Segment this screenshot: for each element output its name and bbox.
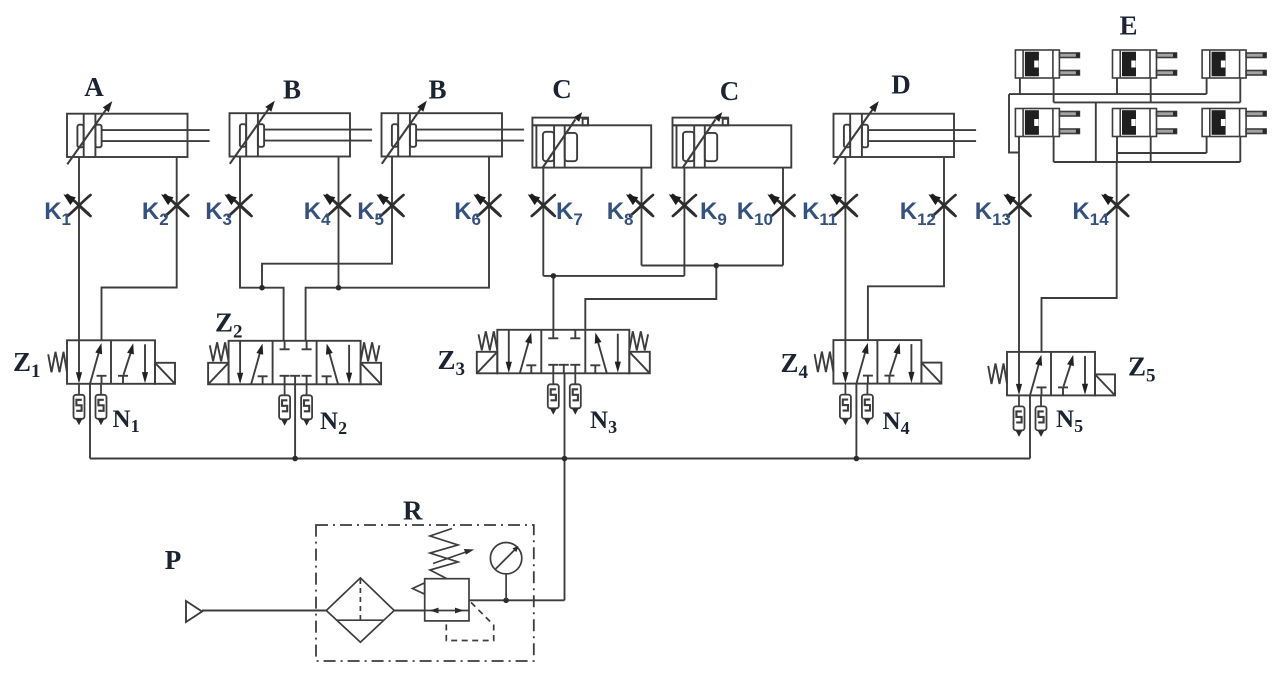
supply line Z1 to bus <box>89 384 91 459</box>
svg-text:Z2: Z2 <box>215 308 243 343</box>
muffler N1 right <box>96 384 107 426</box>
supply line Z3 to bus and down to R unit output <box>564 373 566 600</box>
muffler N4 right <box>862 384 873 426</box>
svg-text:R: R <box>403 496 423 526</box>
supply line P to filter <box>202 610 326 612</box>
muffler N3 right <box>570 373 581 415</box>
svg-text:K10: K10 <box>737 198 773 229</box>
throttle valve K6 <box>473 194 500 216</box>
muffler N4 left <box>840 384 851 426</box>
valve Z1 (5/2) <box>48 340 175 384</box>
junction dot gauge stem <box>503 598 509 604</box>
svg-text:K8: K8 <box>607 198 634 229</box>
throttle valve K3 <box>224 194 251 216</box>
wire E6 right port to rail4 <box>1239 137 1241 163</box>
junction dot K3/K5 node <box>259 285 265 291</box>
valve Z3 (5/3) <box>477 330 650 374</box>
svg-text:K12: K12 <box>900 198 936 229</box>
gripper cylinder E6 <box>1202 109 1266 137</box>
cylinder C (second) <box>673 112 792 168</box>
svg-text:N4: N4 <box>883 408 910 438</box>
svg-text:K3: K3 <box>205 198 232 229</box>
svg-text:C: C <box>720 76 740 106</box>
svg-text:K14: K14 <box>1072 198 1109 229</box>
wire rail2 to rail4 connector <box>1095 102 1097 162</box>
wire cylinder B2 left port through K5 to junction <box>262 157 392 288</box>
junction dot K8/K10 node <box>714 263 720 269</box>
pressure source triangle P <box>186 601 202 622</box>
wire cylinder C1 left port through K7 down <box>542 168 544 276</box>
supply bus <box>90 458 1030 460</box>
wire junction to Z3 port a <box>552 276 554 330</box>
throttle valve K13 <box>1003 194 1030 216</box>
wire C1-K8 to C2-K10 header <box>642 265 784 267</box>
muffler N5 left <box>1014 395 1025 437</box>
svg-text:K1: K1 <box>44 198 71 229</box>
svg-text:Z3: Z3 <box>438 345 466 380</box>
svg-text:D: D <box>891 70 911 100</box>
supply line Z2 to bus <box>294 384 296 458</box>
wire E6 left port to rail3 <box>1206 137 1208 154</box>
muffler N2 right <box>301 384 312 426</box>
wire E5 right port to rail4 <box>1150 137 1152 163</box>
svg-text:N2: N2 <box>320 408 347 438</box>
wire E4 right port to rail4 <box>1053 137 1055 163</box>
wire cylinder A left port through K1 to Z1 port a <box>78 157 80 340</box>
throttle valve K10 <box>767 194 794 216</box>
muffler N5 right <box>1036 395 1047 437</box>
regulator dashed pilot feedback <box>446 602 493 640</box>
junction dot K7/K9 node <box>551 273 557 279</box>
svg-text:N3: N3 <box>590 407 617 437</box>
wire E1 right port to rail2 <box>1053 78 1055 102</box>
svg-text:K2: K2 <box>142 198 169 229</box>
muffler N3 left <box>548 373 559 415</box>
regulator adjustment arrow <box>433 549 474 564</box>
rail2 (E right ports, top row) <box>1054 101 1241 103</box>
wire E node B through K14 to Z5 port b <box>1042 162 1117 352</box>
svg-text:N5: N5 <box>1056 406 1083 436</box>
svg-text:K7: K7 <box>556 198 583 229</box>
wire cylinder D right port through K12 to Z4 port b <box>868 157 944 340</box>
gripper cylinder E2 <box>1113 50 1177 78</box>
svg-text:K4: K4 <box>304 198 331 229</box>
muffler N1 left <box>74 384 85 426</box>
wire cylinder C1 right port through K8 down <box>641 168 643 266</box>
wire cylinder B1 right port through K4 to junction <box>338 157 340 288</box>
gripper cylinder E4 <box>1015 109 1079 137</box>
cylinder C (first) <box>532 112 651 168</box>
wire E3 left port to rail1 <box>1206 78 1208 94</box>
line filter to regulator <box>394 610 425 612</box>
wire cylinder B1 left port through K3 to Z2 port a <box>240 157 284 341</box>
regulator spring <box>430 529 458 579</box>
svg-text:Z1: Z1 <box>13 347 41 382</box>
cylinder B (second) <box>382 101 525 164</box>
valve Z4 (5/2) <box>815 340 942 384</box>
svg-text:K11: K11 <box>802 198 837 229</box>
muffler N2 left <box>279 384 290 426</box>
svg-text:K9: K9 <box>700 198 727 229</box>
svg-text:Z4: Z4 <box>781 348 809 383</box>
junction dot bus Z3 <box>562 456 568 462</box>
throttle valve K9 <box>669 194 696 216</box>
svg-text:K5: K5 <box>357 198 384 229</box>
regulator output line <box>469 599 565 601</box>
svg-text:B: B <box>283 75 301 105</box>
throttle valve K11 <box>830 194 857 216</box>
wire junction to Z3 port b <box>585 266 716 330</box>
gripper cylinder E3 <box>1202 50 1266 78</box>
svg-text:Z5: Z5 <box>1128 352 1156 387</box>
wire cylinder C2 right port through K10 down <box>782 168 784 266</box>
rail3 (E left ports, bottom row) <box>1117 152 1207 154</box>
gripper cylinder E5 <box>1113 109 1177 137</box>
gripper cylinder E1 <box>1015 50 1079 78</box>
wire rail1 down to node K13 <box>1009 94 1019 152</box>
wire C1-K7 to C2-K9 header <box>543 275 684 277</box>
svg-text:P: P <box>165 545 182 575</box>
throttle valve K8 <box>626 194 653 216</box>
filter (diamond) <box>326 578 394 642</box>
svg-text:C: C <box>552 74 572 104</box>
throttle valve K1 <box>63 194 90 216</box>
pressure gauge <box>490 543 521 601</box>
svg-text:B: B <box>428 75 446 105</box>
pressure regulator <box>413 579 470 621</box>
wire E2 left port to rail1 <box>1116 78 1118 94</box>
wire E3 right port to rail2 <box>1239 78 1241 102</box>
junction dot bus Z4 <box>854 456 860 462</box>
wire E5 left port to rail3 <box>1116 137 1118 163</box>
wire cylinder D left port through K11 to Z4 port a <box>844 157 846 340</box>
svg-text:A: A <box>84 72 104 102</box>
valve Z5 (5/2) <box>988 352 1115 396</box>
supply line Z4 to bus <box>855 384 857 459</box>
supply line bus up to Z5 <box>1029 395 1031 458</box>
svg-text:K6: K6 <box>454 198 481 229</box>
wire E2 right port to rail2 <box>1150 78 1152 102</box>
svg-text:N1: N1 <box>113 406 140 436</box>
wire cylinder B2 right port through K6 to Z2 port b <box>306 157 489 341</box>
valve Z2 (5/3) <box>208 341 381 385</box>
service unit R enclosure (dash-dot box) <box>316 525 534 661</box>
wire cylinder A right port through K2 to Z1 port b <box>102 157 177 340</box>
throttle valve K4 <box>323 194 350 216</box>
throttle valve K12 <box>928 194 955 216</box>
wire E1 left port to rail1 <box>1019 78 1021 94</box>
cylinder D <box>834 101 977 164</box>
wire E node A through K13 to Z5 port a <box>1018 137 1020 352</box>
throttle valve K7 <box>528 194 555 216</box>
svg-text:K13: K13 <box>975 198 1011 229</box>
rail1 (E left ports, top row) <box>1009 93 1207 95</box>
junction dot K4/K6 node <box>336 285 342 291</box>
svg-text:E: E <box>1119 11 1137 41</box>
junction dot bus Z2 <box>292 456 298 462</box>
throttle valve K2 <box>161 194 188 216</box>
throttle valve K5 <box>376 194 403 216</box>
rail4 (E right ports, bottom row) <box>1054 161 1241 163</box>
cylinder A <box>67 101 210 164</box>
throttle valve K14 <box>1101 194 1128 216</box>
wire cylinder C2 left port through K9 down <box>683 168 685 276</box>
cylinder B (first) <box>230 101 373 164</box>
